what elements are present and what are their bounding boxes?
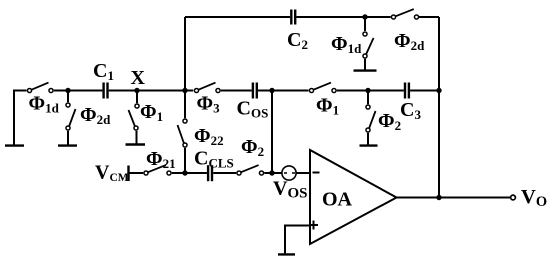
- node junction C3 left: [365, 88, 370, 93]
- svg-text:X: X: [131, 67, 146, 89]
- wire main row seg2: [109, 90, 194, 92]
- svg-text:OA: OA: [322, 189, 353, 211]
- wire main row seg3: [221, 90, 252, 92]
- terminal VCM bar: [127, 166, 129, 182]
- ground below phi1: [126, 143, 146, 145]
- svg-text:Φ1d: Φ1d: [29, 93, 60, 116]
- wire output row: [396, 197, 510, 199]
- wire vcm row stub: [129, 172, 144, 174]
- switch phi2d top: [391, 9, 418, 19]
- wire right vertical rail: [438, 17, 440, 198]
- ground below phi2: [360, 144, 378, 146]
- svg-text:Φ2d: Φ2d: [394, 30, 425, 53]
- wire vcm row seg2: [172, 172, 207, 174]
- wire main row left stub: [14, 90, 27, 92]
- svg-text:Φ22: Φ22: [194, 125, 224, 148]
- svg-text:VOS: VOS: [273, 178, 307, 202]
- wire COS node vertical drop: [271, 91, 273, 174]
- switch phi2d vertical: [66, 91, 76, 145]
- svg-text:Φ2d: Φ2d: [80, 104, 111, 127]
- svg-text:Φ2: Φ2: [378, 110, 401, 133]
- svg-text:Φ1d: Φ1d: [331, 33, 362, 56]
- svg-text:VO: VO: [521, 186, 547, 210]
- switch phi1 main row: [309, 83, 336, 93]
- op-amp OA: [309, 150, 397, 244]
- svg-text:CCLS: CCLS: [194, 148, 234, 171]
- wire top loop horizontal left of C2: [185, 16, 290, 18]
- switch phi1d vertical top: [363, 17, 374, 70]
- wire main row seg6: [410, 90, 439, 92]
- wire C2 loop left vertical: [184, 17, 186, 91]
- wire vos to opamp: [296, 172, 310, 174]
- ground below phi1d top: [354, 69, 377, 71]
- terminal VO: [511, 195, 516, 200]
- switch phi2 vertical below C3 node: [366, 91, 376, 145]
- ground below phi2d: [58, 144, 77, 146]
- svg-text:Φ3: Φ3: [197, 93, 221, 116]
- node junction phi22 bottom: [182, 170, 187, 175]
- wire opamp plus input: [285, 226, 310, 254]
- svg-text:C3: C3: [400, 99, 421, 122]
- node junction output rail: [436, 195, 441, 200]
- switch phi3: [194, 83, 220, 93]
- svg-text:C1: C1: [93, 60, 114, 83]
- node junction C2 loop / phi22: [182, 88, 187, 93]
- capacitor C2: [291, 10, 295, 25]
- svg-text:Φ1: Φ1: [140, 101, 163, 124]
- ground opamp plus: [278, 253, 295, 255]
- capacitor CCLS: [208, 165, 212, 181]
- wire top loop horizontal right of C2: [296, 16, 390, 18]
- wire main row seg1: [54, 90, 103, 92]
- capacitor COS: [253, 83, 257, 99]
- switch phi1d left: [27, 83, 53, 93]
- capacitor C3: [405, 83, 409, 99]
- node junction right rail main row: [436, 88, 441, 93]
- node junction COS right: [269, 88, 274, 93]
- capacitor C1: [104, 83, 108, 99]
- wire main row seg4: [258, 90, 309, 92]
- svg-text:Φ21: Φ21: [146, 148, 176, 171]
- ground left: [5, 144, 24, 146]
- voltage source VOS: [282, 166, 296, 180]
- node X: [134, 88, 139, 93]
- node junction vos row: [269, 170, 274, 175]
- wire top loop right segment after phi2d switch: [419, 16, 439, 18]
- svg-text:COS: COS: [237, 98, 269, 121]
- node junction top phi1d: [362, 14, 367, 19]
- switch phi22 vertical: [178, 91, 188, 174]
- svg-text:Φ1: Φ1: [316, 95, 339, 118]
- wire vcm row seg3: [213, 172, 236, 174]
- node junction phi2d drop: [65, 88, 70, 93]
- switch phi1 vertical below X: [129, 91, 140, 144]
- wire main row seg5: [337, 90, 404, 92]
- wire vcm row seg4: [264, 172, 282, 174]
- switch phi2 cls row: [237, 165, 264, 175]
- svg-text:C2: C2: [287, 29, 308, 52]
- svg-text:Φ2: Φ2: [241, 136, 264, 159]
- switch phi21: [144, 165, 171, 175]
- svg-text:VCM: VCM: [95, 162, 129, 185]
- wire left ground drop: [13, 90, 15, 145]
